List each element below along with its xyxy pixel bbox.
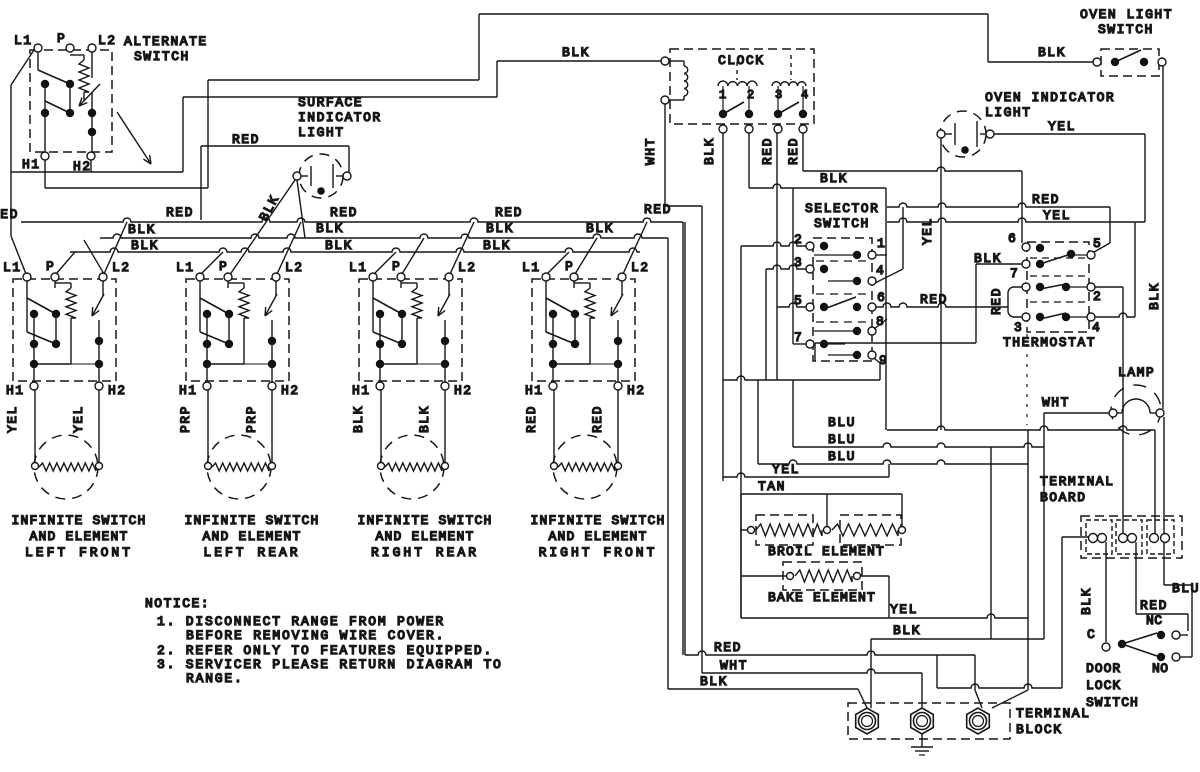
door lock terminal NC	[1172, 631, 1180, 639]
svg-text:L1: L1	[176, 260, 195, 275]
svg-text:RED: RED	[0, 207, 19, 222]
wire board pair2 right to NC (RED)	[1135, 542, 1137, 614]
infinite switch 4 element wires	[553, 390, 555, 462]
bake element	[787, 573, 794, 580]
bus BLU2 y447	[793, 443, 1044, 447]
infinite switch 3 element wires	[380, 390, 382, 462]
infinite switch 1 terminal L2	[99, 273, 107, 281]
wire thermostat 4 to YEL bus	[1095, 313, 1135, 317]
svg-text:4: 4	[876, 263, 884, 278]
svg-text:AND ELEMENT: AND ELEMENT	[29, 529, 128, 544]
svg-text:3: 3	[775, 88, 782, 102]
svg-text:RED: RED	[330, 205, 358, 220]
svg-text:P: P	[57, 31, 66, 46]
svg-text:L1: L1	[14, 33, 33, 48]
svg-text:AND ELEMENT: AND ELEMENT	[375, 529, 474, 544]
svg-text:2. REFER ONLY TO FEATURES EQUI: 2. REFER ONLY TO FEATURES EQUIPPED.	[157, 643, 493, 658]
bus BLK y238	[100, 234, 668, 238]
selector terminal 7	[806, 340, 814, 348]
svg-text:BLK: BLK	[586, 221, 614, 236]
infinite switch 1 terminal L1	[23, 273, 31, 281]
thermostat terminal 5	[1087, 251, 1095, 259]
svg-text:SWITCH: SWITCH	[1086, 695, 1139, 710]
broil element	[748, 527, 755, 534]
wire riser x871 to terminal block	[870, 639, 872, 708]
svg-text:TERMINAL: TERMINAL	[1016, 706, 1090, 721]
alternate switch terminal P	[66, 44, 74, 52]
ground symbol	[921, 733, 923, 747]
bus BLU1 y430	[887, 426, 1155, 430]
svg-text:RED: RED	[495, 205, 523, 220]
svg-text:L2: L2	[458, 260, 477, 275]
terminal block lug 1	[856, 708, 990, 734]
svg-text:3: 3	[794, 255, 802, 270]
wire diagonal to infinite switch 1 L1	[11, 236, 26, 274]
wire clock neutral WHT	[664, 104, 666, 206]
infinite switch 1 box	[13, 279, 116, 381]
infinite switch 2 terminal H1	[203, 382, 211, 390]
thermostat terminal 6	[1022, 243, 1030, 251]
infinite switch 2 terminal L2	[272, 273, 280, 281]
svg-text:BLK: BLK	[702, 137, 717, 165]
svg-text:INDICATOR: INDICATOR	[298, 110, 382, 125]
alternate switch L2 column	[91, 52, 93, 78]
svg-text:YEL: YEL	[890, 602, 918, 617]
infinite switch 4 terminal H2	[614, 382, 622, 390]
svg-text:BLK: BLK	[131, 238, 159, 253]
clock output terminals	[719, 125, 727, 133]
wire top BLK run to oven light switch	[479, 13, 988, 15]
terminal block box	[848, 703, 1010, 739]
svg-text:L1: L1	[3, 260, 22, 275]
surface indicator light symbol	[299, 154, 343, 198]
wire NC to riser	[1180, 634, 1188, 636]
infinite switch 3 terminal L1	[369, 273, 377, 281]
svg-text:3: 3	[1014, 320, 1022, 335]
infinite switch 2 resistor	[227, 281, 229, 288]
infinite switch 1 contacts	[26, 281, 28, 332]
wire thermostat 2 down to board pair2	[1095, 286, 1123, 288]
svg-text:LAMP: LAMP	[1118, 365, 1155, 380]
wire thermostat 5 to RED bus	[1109, 207, 1111, 243]
wire board pair1 left feed	[1062, 536, 1089, 538]
svg-text:1. DISCONNECT RANGE FROM POWER: 1. DISCONNECT RANGE FROM POWER	[157, 614, 445, 629]
infinite switch 2 L2 arm	[275, 281, 277, 296]
alternate switch terminal H2	[87, 152, 95, 160]
tap switch4 L2 to bus	[623, 222, 647, 274]
svg-text:ALTERNATE: ALTERNATE	[124, 34, 208, 49]
tap switch1 L2 to bus	[104, 222, 127, 274]
wire BLU3 drop to terminal block 3	[1027, 430, 1029, 690]
svg-text:LOCK: LOCK	[1086, 678, 1121, 693]
wire short diagonal from surface light	[297, 180, 305, 238]
infinite switch 3 L2 arm	[448, 281, 450, 296]
wire NO to riser	[1180, 656, 1192, 658]
wire clock pin4 run to thermostat 6	[802, 133, 804, 171]
clock switch 3-4	[774, 110, 782, 118]
wire lamp right to board pair3 right	[1163, 417, 1165, 534]
infinite switch 2 terminal H2	[268, 382, 276, 390]
infinite switch 4 L2 arm	[621, 281, 623, 296]
svg-text:3. SERVICER PLEASE RETURN DIAG: 3. SERVICER PLEASE RETURN DIAGRAM TO	[157, 657, 503, 672]
wire riser BLU2 to BLK y639	[990, 447, 992, 639]
wire selector 1 to riser	[876, 254, 887, 256]
wire step to top BLK run	[208, 79, 479, 81]
wire RED bus drop to bottom RED	[682, 222, 684, 655]
selector switch box	[813, 238, 872, 361]
wire bake left	[741, 575, 786, 577]
svg-text:RED: RED	[714, 640, 742, 655]
svg-text:RANGE.: RANGE.	[186, 671, 244, 686]
svg-text:SWITCH: SWITCH	[134, 49, 190, 64]
clock box	[670, 49, 814, 124]
svg-text:L2: L2	[98, 33, 117, 48]
svg-text:6: 6	[1008, 231, 1016, 246]
svg-text:WHT: WHT	[720, 658, 748, 673]
svg-text:BLK: BLK	[351, 405, 366, 433]
wire board pair3 right down to NO riser	[1163, 542, 1165, 585]
svg-text:2: 2	[1093, 289, 1101, 304]
wire step to clock (BLK)	[183, 96, 497, 98]
svg-text:DOOR: DOOR	[1086, 661, 1121, 676]
bus RED y222	[21, 218, 683, 222]
tap switch3 L1 to bus	[374, 252, 396, 274]
oven light switch box	[1101, 49, 1159, 76]
thermostat contacts	[1036, 244, 1044, 252]
wire broil left to rail	[741, 529, 747, 531]
infinite switch 3 resistor	[400, 281, 402, 288]
tap switch2 L2 to bus	[277, 222, 301, 274]
tap switch1 P to bus	[56, 252, 75, 274]
alternate switch terminal L2	[88, 44, 96, 52]
terminal board section 3	[1147, 520, 1174, 554]
svg-text:RED: RED	[920, 292, 948, 307]
wire WHT to lamp	[1044, 412, 1109, 414]
wire H2 to step	[90, 160, 92, 172]
selector terminal 9	[868, 351, 876, 359]
bus RED y207	[887, 203, 1110, 207]
svg-text:OVEN LIGHT: OVEN LIGHT	[1080, 7, 1173, 22]
svg-text:4: 4	[1092, 320, 1100, 335]
clock motor coil 3-4	[772, 82, 806, 86]
wire clock4 into thermostat 6	[1021, 171, 1023, 243]
svg-text:L1: L1	[522, 260, 541, 275]
svg-text:H2: H2	[108, 383, 127, 398]
svg-text:WHT: WHT	[643, 137, 658, 165]
wire to selector 7	[792, 188, 794, 344]
wire WHT drop to terminal block 2	[921, 673, 923, 708]
annotation arrow to switch	[117, 112, 151, 164]
selector contacts	[820, 242, 828, 250]
thermostat terminal 3	[1022, 313, 1030, 321]
svg-text:RED: RED	[1140, 598, 1168, 613]
wire bake right	[861, 575, 889, 577]
infinite switch 3 box	[359, 279, 462, 381]
tap switch3 P to bus	[402, 238, 424, 274]
svg-text:OVEN INDICATOR: OVEN INDICATOR	[985, 90, 1115, 105]
svg-text:H1: H1	[525, 383, 544, 398]
svg-text:BLK: BLK	[562, 45, 590, 60]
wire oven indicator to right YEL	[994, 133, 1145, 135]
svg-text:5: 5	[794, 293, 802, 308]
infinite switch 2 element wires	[207, 390, 209, 462]
svg-text:RED: RED	[590, 405, 605, 433]
wire riser to BLU3	[757, 380, 759, 464]
svg-text:WHT: WHT	[1042, 395, 1070, 410]
svg-text:BLK: BLK	[820, 171, 848, 186]
thermostat terminal row3 left	[1022, 283, 1030, 291]
svg-text:P: P	[565, 259, 574, 274]
alternate switch terminal H1	[41, 152, 49, 160]
infinite switch 3 terminal H2	[441, 382, 449, 390]
svg-text:RED: RED	[166, 205, 194, 220]
infinite switch 2 terminal P	[224, 273, 232, 281]
svg-text:INFINITE SWITCH: INFINITE SWITCH	[357, 513, 492, 528]
infinite switch 4 terminal P	[570, 273, 578, 281]
svg-text:RED: RED	[1032, 192, 1060, 207]
wire oven indicator left down	[940, 138, 942, 430]
svg-text:BLU: BLU	[1172, 581, 1200, 596]
svg-text:THERMOSTAT: THERMOSTAT	[1003, 335, 1096, 350]
terminal board section 2	[1116, 520, 1142, 554]
svg-text:YEL: YEL	[920, 217, 935, 245]
infinite switch 1 terminal P	[51, 273, 59, 281]
infinite switch 2 element	[207, 435, 271, 499]
infinite switch 1 element	[34, 435, 98, 499]
clock dashed stubs	[736, 62, 738, 80]
wire clock pin3 down	[776, 133, 778, 380]
svg-text:H1: H1	[6, 383, 25, 398]
wire clock pin1 down	[722, 133, 724, 477]
door lock contacts	[1118, 640, 1126, 648]
infinite switch 4 element	[553, 435, 617, 499]
svg-text:BLU: BLU	[828, 449, 856, 464]
infinite switch 1 terminal H1	[30, 382, 38, 390]
svg-text:BLU: BLU	[828, 432, 856, 447]
selector terminal 4	[868, 277, 876, 285]
svg-text:BEFORE REMOVING WIRE COVER.: BEFORE REMOVING WIRE COVER.	[186, 628, 445, 643]
wire to selector 3	[765, 269, 767, 380]
infinite switch 1 element wires	[34, 390, 36, 462]
infinite switch 4 contacts	[545, 281, 547, 332]
svg-text:H2: H2	[281, 383, 300, 398]
svg-text:BLK: BLK	[486, 221, 514, 236]
svg-text:TAN: TAN	[758, 479, 786, 494]
infinite switch 4 box	[532, 279, 635, 381]
svg-text:BLK: BLK	[325, 238, 353, 253]
svg-text:NOTICE:: NOTICE:	[145, 596, 210, 611]
svg-text:L2: L2	[112, 260, 131, 275]
svg-text:H1: H1	[179, 383, 198, 398]
alternate switch contacts	[37, 52, 39, 70]
tap switch3 L2 to bus	[450, 222, 474, 274]
thermostat terminal 2	[1087, 283, 1095, 291]
svg-text:RED: RED	[524, 405, 539, 433]
infinite switch 3 terminal L2	[445, 273, 453, 281]
svg-text:BLU: BLU	[828, 415, 856, 430]
lamp symbol	[1122, 399, 1150, 413]
wire BLK diagonal to terminal block 1	[858, 689, 867, 708]
alternate switch resistor	[70, 54, 84, 56]
wire clock pin2 BLK run	[748, 133, 750, 188]
bake element box	[783, 562, 862, 590]
svg-text:SWITCH: SWITCH	[1098, 22, 1154, 37]
svg-text:4: 4	[801, 88, 808, 102]
tap switch2 L1 to bus	[201, 252, 223, 274]
svg-text:P: P	[392, 259, 401, 274]
wire selector 9 to bottom bus	[874, 358, 880, 363]
wire board pair1 feed y688	[937, 684, 1062, 688]
wire long diagonal surface light to switch2 P (BLK)	[229, 180, 295, 276]
svg-text:YEL: YEL	[772, 462, 800, 477]
svg-text:INFINITE SWITCH: INFINITE SWITCH	[184, 513, 319, 528]
infinite switch 4 terminal H1	[549, 382, 557, 390]
svg-text:SURFACE: SURFACE	[298, 95, 363, 110]
svg-text:LEFT FRONT: LEFT FRONT	[25, 545, 133, 560]
svg-text:L2: L2	[631, 260, 650, 275]
selector terminal 1	[868, 251, 876, 259]
left rail to bake and YEL	[740, 494, 742, 618]
selector terminal 3	[806, 265, 814, 273]
infinite switch 2 contacts	[199, 281, 201, 332]
thermostat RED loop 1-3	[1008, 287, 1022, 317]
svg-text:BLK: BLK	[417, 405, 432, 433]
infinite switch 3 terminal P	[397, 273, 405, 281]
svg-text:L2: L2	[285, 260, 304, 275]
terminal board outer box	[1081, 516, 1182, 558]
svg-text:AND ELEMENT: AND ELEMENT	[202, 529, 301, 544]
svg-text:P: P	[46, 259, 55, 274]
infinite switch 2 box	[186, 279, 289, 381]
svg-text:NC: NC	[1146, 613, 1163, 628]
broil element box left	[756, 515, 813, 545]
svg-text:INFINITE SWITCH: INFINITE SWITCH	[530, 513, 665, 528]
infinite switch 2 terminal L1	[196, 273, 204, 281]
svg-text:2: 2	[794, 232, 802, 247]
svg-text:7: 7	[1010, 266, 1018, 281]
svg-text:7: 7	[794, 330, 802, 345]
svg-text:LIGHT: LIGHT	[298, 125, 345, 140]
alternate switch box	[30, 50, 112, 152]
infinite switch 1 terminal H2	[95, 382, 103, 390]
svg-text:SELECTOR: SELECTOR	[805, 201, 879, 216]
oven indicator light symbol	[940, 111, 986, 157]
svg-text:RED: RED	[232, 132, 260, 147]
svg-text:RED: RED	[989, 287, 1004, 315]
svg-text:BLK: BLK	[1038, 45, 1066, 60]
bus BLU3 y464	[758, 460, 1028, 464]
svg-text:PRP: PRP	[244, 405, 259, 433]
door lock terminal NO	[1172, 653, 1180, 661]
svg-text:YEL: YEL	[5, 405, 20, 433]
svg-text:SWITCH: SWITCH	[814, 216, 870, 231]
svg-text:BLK: BLK	[316, 221, 344, 236]
svg-text:INFINITE SWITCH: INFINITE SWITCH	[11, 513, 146, 528]
wire board pair1 right to door lock C (BLK)	[1105, 542, 1107, 642]
thermostat box	[1027, 242, 1089, 332]
svg-text:BLK: BLK	[128, 222, 156, 237]
svg-text:YEL: YEL	[1043, 208, 1071, 223]
infinite switch 1 resistor	[54, 281, 56, 288]
infinite switch 4 terminal L1	[542, 273, 550, 281]
wire BLK bus drop to bottom BLK	[667, 238, 669, 689]
wire riser to BLU2	[792, 380, 794, 447]
svg-text:PRP: PRP	[178, 405, 193, 433]
svg-text:AND ELEMENT: AND ELEMENT	[548, 529, 647, 544]
wire broil mid riser	[826, 494, 828, 526]
wire selector 6 RED to thermostat	[876, 303, 1008, 307]
infinite switch 3 element	[380, 435, 444, 499]
svg-text:LIGHT: LIGHT	[985, 105, 1032, 120]
svg-text:RED: RED	[760, 137, 775, 165]
thermostat terminal 4	[1087, 313, 1095, 321]
svg-text:BOARD: BOARD	[1040, 490, 1087, 505]
thermostat linkage dashed	[1026, 334, 1028, 425]
infinite switch 4 terminal L2	[618, 273, 626, 281]
broil element box right	[840, 515, 901, 545]
alternate switch arrow blade	[79, 84, 100, 106]
wire left vertical from L1	[11, 50, 34, 85]
tap switch4 P to bus	[575, 238, 597, 274]
svg-text:6: 6	[877, 290, 885, 305]
svg-text:BLOCK: BLOCK	[1016, 722, 1063, 737]
svg-text:1: 1	[877, 236, 885, 251]
oven light switch	[1093, 58, 1101, 66]
svg-text:H2: H2	[627, 383, 646, 398]
clock motor coil 1-2	[718, 81, 757, 86]
svg-text:YEL: YEL	[1048, 119, 1076, 134]
svg-text:H1: H1	[352, 383, 371, 398]
selector terminal 5	[806, 303, 814, 311]
svg-text:CLOCK: CLOCK	[718, 53, 765, 68]
svg-text:BLK: BLK	[893, 623, 921, 638]
door lock terminal C	[1102, 643, 1110, 651]
svg-text:H1: H1	[22, 157, 41, 172]
terminal board section 1	[1086, 520, 1112, 554]
wire to selector 2	[740, 246, 742, 618]
svg-text:TERMINAL: TERMINAL	[1040, 474, 1114, 489]
bus BLK y252	[70, 248, 640, 252]
svg-text:RED: RED	[644, 202, 672, 217]
infinite switch 1 L2 arm	[102, 281, 104, 296]
svg-text:BLK: BLK	[1079, 587, 1094, 615]
wire board pair3 left from BLU1 end	[1154, 430, 1156, 534]
svg-text:RIGHT REAR: RIGHT REAR	[371, 545, 479, 560]
wire oven light switch to right edge BLK	[1162, 66, 1164, 409]
svg-text:BROIL ELEMENT: BROIL ELEMENT	[768, 544, 885, 559]
tap switch4 L1 to bus	[547, 252, 569, 274]
bus YEL y222	[887, 218, 1145, 222]
svg-text:P: P	[219, 259, 228, 274]
svg-text:BLK: BLK	[1147, 282, 1162, 310]
svg-text:RIGHT FRONT: RIGHT FRONT	[539, 545, 658, 560]
clock coil left	[661, 57, 669, 65]
svg-text:BAKE ELEMENT: BAKE ELEMENT	[768, 590, 876, 605]
thermostat terminal 7	[1022, 260, 1030, 268]
svg-text:BLK: BLK	[700, 674, 728, 689]
infinite switch 3 terminal H1	[376, 382, 384, 390]
wire selector 4 diagonal	[902, 207, 904, 269]
selector terminal 8	[868, 327, 876, 335]
infinite switch 4 resistor	[573, 281, 575, 288]
wire H1 to step	[44, 160, 46, 188]
wire RED drop to terminal block 3	[974, 655, 976, 690]
wire selector 8 diagonal	[874, 319, 887, 329]
wire to selector 5	[777, 303, 806, 307]
svg-text:YEL: YEL	[71, 405, 86, 433]
svg-text:L1: L1	[349, 260, 368, 275]
svg-text:RED: RED	[786, 137, 801, 165]
